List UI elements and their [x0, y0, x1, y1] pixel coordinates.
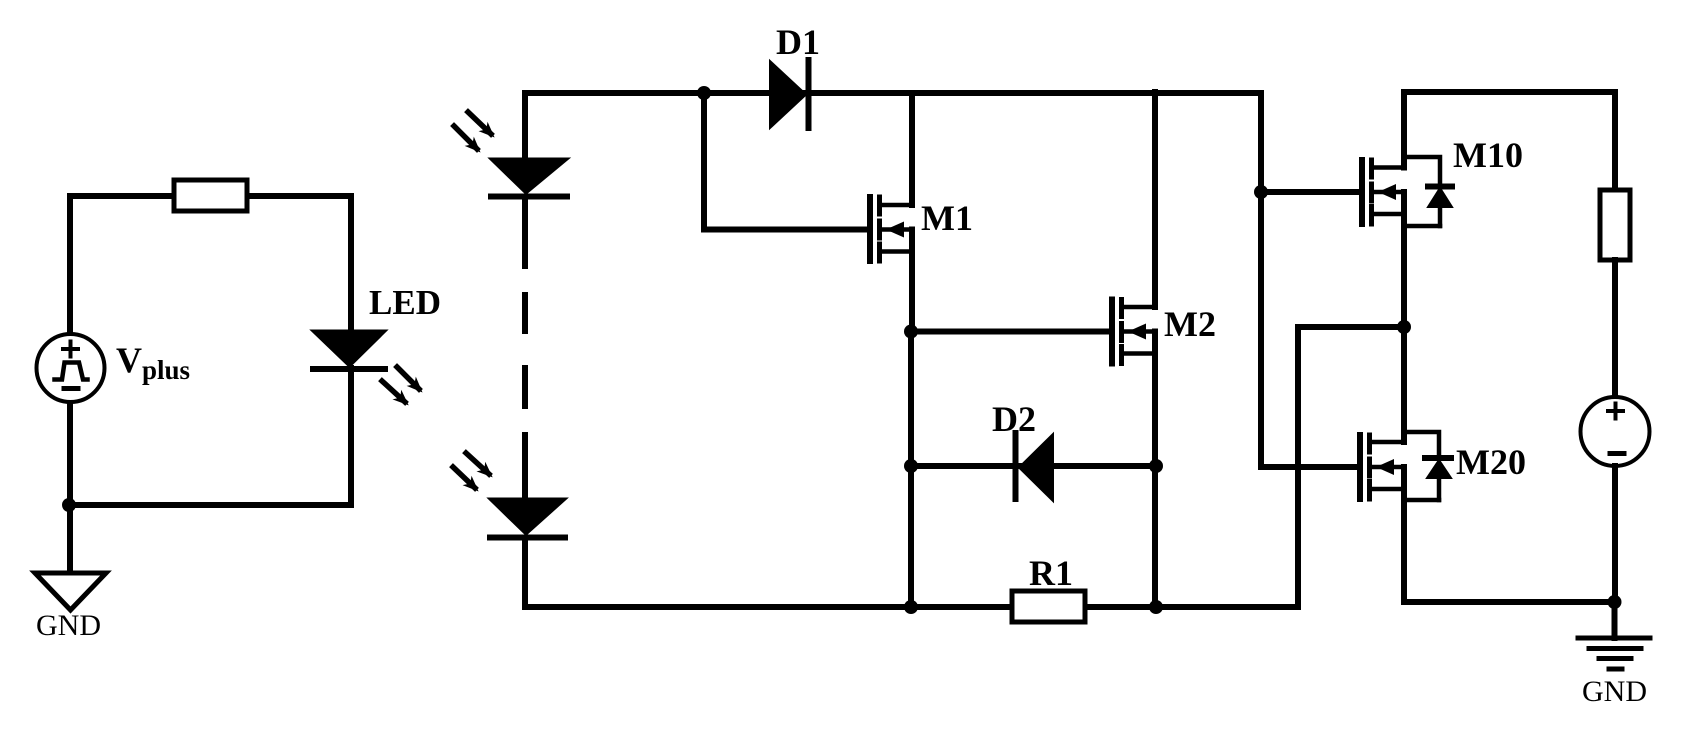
photodiode PD1 [491, 159, 567, 193]
wire: bottom rail up-feedback vertical [1295, 327, 1301, 607]
wire: below PD2 [522, 538, 528, 608]
junction: right ground node [1608, 595, 1622, 609]
wire: feedback horizontal to source node [1298, 324, 1404, 330]
wire: M2 drain to top rail [1152, 92, 1158, 307]
wire: left loop right vertical lower [348, 368, 354, 505]
svg-text:LED: LED [369, 283, 441, 322]
wire: left loop top [70, 193, 351, 199]
diode D1 [770, 61, 806, 128]
wire: right branch below resistor [1612, 260, 1618, 399]
LED emission arrow 2 [382, 381, 405, 402]
junction: M10 source node [1397, 320, 1411, 334]
resistor R1 [1012, 591, 1085, 622]
body diode of M20 [1404, 432, 1451, 500]
wire: M20 gate lead [1261, 464, 1357, 470]
resistor (right, unlabeled) [1600, 190, 1630, 260]
wire: M20 source down [1401, 467, 1407, 602]
wire: M1 source down [909, 230, 915, 333]
wire: photodiode string top [522, 93, 528, 162]
junction: M1 source / M2 gate [904, 325, 918, 339]
junction: M10 gate node [1254, 185, 1268, 199]
wire: top rail corner down to gate node [1258, 93, 1264, 192]
transistor M2 (NMOS) [1112, 300, 1155, 364]
transistor M1 (NMOS) [870, 197, 912, 261]
voltage source Vplus [37, 334, 105, 402]
wire: middle bottom rail [525, 604, 1298, 610]
wire: left loop left vertical upper [67, 196, 73, 336]
svg-text:D2: D2 [992, 399, 1036, 439]
wire: left loop right vertical upper [348, 196, 354, 333]
junction: D2 left [904, 459, 918, 473]
wire: left loop bottom [68, 502, 351, 508]
wire: M1 gate branch vertical [701, 93, 707, 230]
wire: left middle vertical to bottom rail [908, 332, 914, 608]
wire: gate node down to M20 gate [1258, 192, 1264, 467]
wire: dashed LED-string continuation [522, 295, 528, 331]
wire: bottom right rail [1404, 599, 1615, 605]
wire: right branch below source [1612, 466, 1618, 603]
diode D2 [1019, 434, 1053, 501]
wire: M10 gate lead [1261, 189, 1359, 195]
wire: GND stem left [67, 505, 73, 572]
wire: M1 drain to top rail [909, 93, 915, 205]
LED emission arrow 1 [397, 367, 419, 389]
wire: GND stem right [1612, 602, 1618, 638]
wire: M10 source down to node [1401, 192, 1407, 327]
junction: D1 branch on top rail [697, 86, 711, 100]
svg-text:GND: GND [36, 609, 101, 642]
svg-text:R1: R1 [1029, 553, 1073, 593]
wire: node down to M20 drain [1401, 327, 1407, 442]
PD1 light arrow 1 [468, 112, 491, 134]
junction: R1 left [904, 600, 918, 614]
wire: left loop left vertical lower [67, 401, 73, 507]
resistor (left, unlabeled) [174, 180, 247, 211]
svg-text:M10: M10 [1453, 135, 1523, 175]
voltage source (right) [1581, 397, 1650, 466]
wire: right branch vertical upper [1612, 92, 1618, 192]
junction: R1 right [1149, 600, 1163, 614]
wire: D2 rung [911, 463, 1156, 469]
svg-text:D1: D1 [776, 22, 820, 62]
body diode of M10 [1404, 157, 1452, 226]
transistor M10 (NMOS with body diode) [1362, 160, 1404, 224]
PD1 light arrow 2 [454, 126, 477, 149]
wire: M2 gate lead [911, 329, 1109, 335]
svg-text:M2: M2 [1164, 304, 1216, 344]
photodiode PD2 [490, 499, 565, 534]
junction: D2 right [1149, 459, 1163, 473]
svg-text:M20: M20 [1456, 442, 1526, 482]
wire: M1 gate branch horizontal [704, 227, 867, 233]
wire: above PD2 [522, 435, 528, 502]
wire: top right rail [1404, 89, 1615, 95]
wire: M10 drain to top-right rail [1401, 92, 1407, 168]
PD2 light arrow 1 [466, 453, 489, 474]
transistor M20 (NMOS with body diode) [1360, 435, 1404, 499]
wire: below PD1 [522, 197, 528, 267]
ground GND (left, triangle) [35, 573, 106, 610]
wire: middle top rail [525, 90, 1261, 96]
svg-text:M1: M1 [921, 198, 973, 238]
ground GND (right, earth) [1578, 638, 1650, 669]
svg-text:Vplus: Vplus [116, 340, 190, 385]
wire: M2 source down to bottom rail [1152, 332, 1158, 608]
LED D (left) [313, 331, 385, 366]
svg-text:GND: GND [1582, 675, 1647, 708]
junction: left bottom [62, 498, 76, 512]
PD2 light arrow 2 [453, 467, 475, 488]
